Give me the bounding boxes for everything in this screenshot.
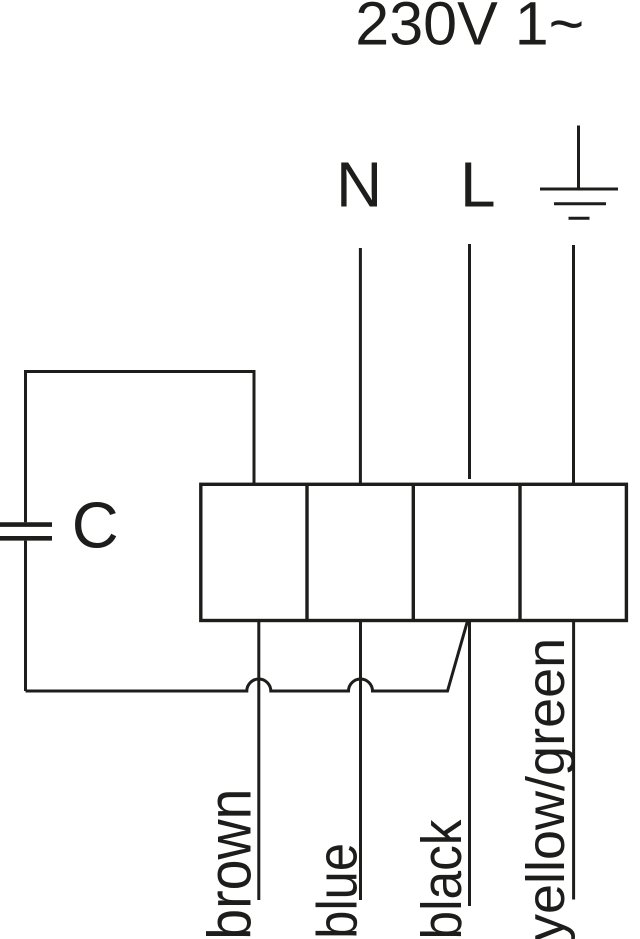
wire bottom with hops (26, 621, 468, 691)
wire L to terminal 3 (468, 244, 471, 479)
terminal divider 3 (518, 484, 521, 620)
wire N to terminal 2 (359, 248, 362, 484)
svg-text:yellow/green: yellow/green (516, 638, 576, 939)
svg-text:C: C (72, 489, 119, 562)
svg-text:L: L (460, 148, 496, 220)
svg-text:blue: blue (306, 843, 369, 939)
wire yellow/green (572, 621, 575, 900)
svg-text:N: N (336, 148, 382, 220)
wire ground to terminal 4 (572, 245, 575, 484)
wire black (468, 621, 471, 907)
wire blue (359, 621, 362, 901)
ground (540, 126, 618, 219)
svg-text:230V 1~: 230V 1~ (355, 0, 584, 58)
capacitor C1 loop bottom left (24, 541, 27, 691)
terminal divider 1 (305, 484, 308, 620)
capacitor C1 (0, 525, 52, 539)
svg-text:brown: brown (196, 789, 264, 939)
wire brown (257, 621, 260, 901)
svg-text:black: black (411, 819, 474, 939)
terminal divider 2 (412, 484, 415, 620)
capacitor C1 loop top (26, 372, 255, 523)
terminal block (201, 484, 627, 620)
